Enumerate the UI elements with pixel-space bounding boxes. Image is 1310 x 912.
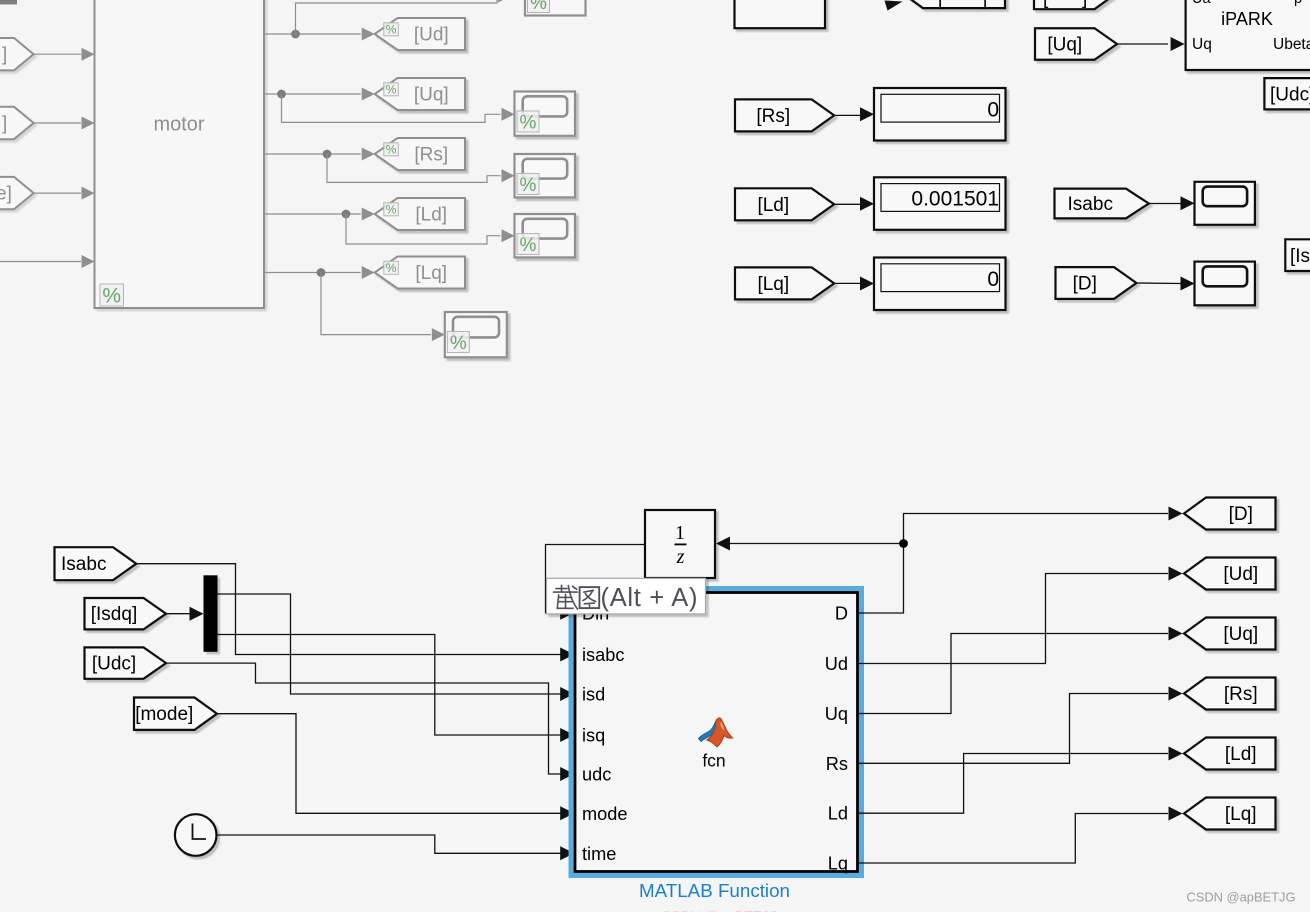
wire [Udc] to udc port (166, 663, 561, 774)
comment-through % badge on motor block (100, 284, 124, 308)
svg-text:Ud: Ud (825, 654, 848, 674)
svg-text:motor: motor (153, 114, 204, 136)
arrowhead into isd port (560, 687, 574, 701)
cut goto tag [Udc] at right edge (1264, 78, 1310, 109)
from tag [D] top section (1056, 267, 1137, 299)
svg-text:Lq: Lq (828, 854, 848, 874)
svg-text:CSDN @apBETJG: CSDN @apBETJG (661, 908, 779, 912)
svg-text:]: ] (2, 113, 7, 134)
svg-text:[: [ (938, 0, 944, 10)
junction dot on D wire feeding 1/z (899, 539, 908, 548)
svg-text:CSDN @apBETJG: CSDN @apBETJG (1186, 890, 1295, 905)
from tag [mode] bottom (134, 698, 217, 730)
svg-text:[Udc]: [Udc] (1270, 85, 1310, 106)
svg-text:[Uq]: [Uq] (414, 85, 449, 106)
svg-text:0: 0 (987, 268, 999, 291)
wire Lq port to goto tag [Lq] (858, 814, 1169, 864)
svg-text:[Uq]: [Uq] (1047, 35, 1082, 56)
screenshot tooltip box (547, 578, 706, 614)
svg-text:[Ld]: [Ld] (415, 205, 447, 226)
goto tag [Ud] right column (1184, 558, 1276, 590)
svg-text:]: ] (2, 45, 7, 66)
arrowhead into goto tag [Lq] (1169, 807, 1183, 821)
svg-text:[Udc]: [Udc] (92, 654, 136, 675)
svg-text:isabc: isabc (582, 645, 624, 665)
comment % badge on tag [Rs] (384, 143, 399, 157)
svg-text:Uq: Uq (1192, 36, 1212, 53)
svg-text:[Uq]: [Uq] (1223, 624, 1258, 645)
wire Ld port to goto tag [Ld] (858, 754, 1169, 814)
svg-text:%: % (520, 112, 537, 133)
svg-text:e]: e] (0, 183, 12, 204)
svg-text:]: ] (982, 0, 987, 10)
faded branch wire from [Ld] junction to scope 3 (346, 214, 501, 244)
arrowhead into faded scope 2 (502, 169, 515, 182)
from tag [Ld] top section (735, 188, 834, 220)
wire [D] to scope (1136, 282, 1180, 285)
junction dot on wire [Uq] (277, 90, 286, 99)
arrowhead into display Ld (860, 197, 874, 211)
faded input tag into motor port 3 (cut at left edge) (0, 177, 34, 209)
svg-text:[mode]: [mode] (135, 704, 193, 725)
svg-text:(Alt + A): (Alt + A) (601, 584, 699, 612)
junction dot on wire [Ld] (342, 210, 351, 219)
display block Rs value 0 (874, 88, 1006, 141)
svg-text:mode: mode (582, 804, 628, 824)
wire Ud port to goto tag [Ud] (858, 574, 1169, 664)
arrowhead motor input 2 (82, 117, 95, 130)
wire Uq port to goto tag [Uq] (858, 634, 1169, 714)
arrowhead into faded scope 4 (432, 328, 445, 341)
faded scope 4 (445, 312, 507, 357)
wire demux out2 to isq port (218, 635, 561, 736)
wire from junction into 1/z right input (730, 543, 904, 545)
display block Lq value 0 (874, 258, 1006, 311)
arrowhead motor input 1 (82, 48, 95, 61)
arrowhead into scope Isabc (1181, 196, 1195, 210)
svg-text:%: % (386, 261, 397, 275)
svg-text:Ld: Ld (828, 804, 848, 824)
arrowhead into goto tag [Rs] (362, 148, 375, 161)
% badge on cut scope (528, 0, 550, 14)
svg-text:Ua: Ua (1192, 0, 1211, 7)
svg-text:isd: isd (582, 685, 605, 705)
tooltip CJK glyph jie (drawn) (554, 585, 578, 609)
tooltip CJK glyph tu (drawn) (580, 587, 600, 608)
svg-text:MATLAB Function: MATLAB Function (639, 880, 790, 901)
svg-text:[Lq]: [Lq] (1225, 804, 1257, 825)
faded goto tag [Ld] (375, 198, 465, 230)
from tag [Isdq] bottom (85, 598, 167, 629)
wire motor output 4 to tag [Ld] (264, 213, 361, 215)
wire [Lq] to display (834, 282, 860, 284)
arrowhead into isq port (560, 728, 574, 742)
svg-text:[D]: [D] (1073, 274, 1097, 295)
svg-text:[Ld]: [Ld] (1225, 744, 1257, 765)
wire tag2 to motor (34, 122, 81, 124)
wire D port to goto tag [D] (858, 514, 1169, 614)
arrowhead into scope D (1181, 277, 1195, 291)
svg-text:[Lq]: [Lq] (757, 274, 789, 295)
faded goto tag [Lq] (375, 257, 465, 289)
clock block (175, 814, 217, 856)
demux block (black bar) (204, 575, 218, 652)
MATLAB Function block body (575, 593, 858, 872)
wire motor output 2 to tag [Uq] (264, 93, 361, 95)
wire tag1 to motor (34, 53, 81, 55)
arrowhead into goto tag [Ud] (362, 28, 375, 41)
arrowhead into faded scope 1 (502, 108, 515, 121)
svg-text:]: ] (1082, 0, 1087, 9)
partial block cut at top edge (735, 0, 826, 28)
faded scope 2 (515, 154, 576, 197)
goto tag [Rs] right column (1184, 678, 1276, 710)
svg-text:[Rs]: [Rs] (414, 145, 448, 166)
svg-text:D: D (835, 604, 848, 624)
svg-text:[Rs]: [Rs] (756, 106, 790, 127)
faded goto tag [Rs] (375, 138, 465, 170)
arrowhead into goto tag [Ld] (1169, 747, 1183, 761)
wire [Uq] to iPARK (1117, 43, 1168, 45)
goto tag [Ld] right column (1184, 738, 1276, 770)
goto tag [Uq] right column (1184, 618, 1276, 650)
arrowhead into display Lq (860, 277, 874, 291)
cut from tag [Isdq] at right edge (1285, 239, 1310, 271)
wire Isabc to mux and down to isabc port (136, 564, 560, 655)
svg-text:fcn: fcn (702, 751, 725, 771)
wire motor output 5 to tag [Lq] (264, 272, 361, 274)
comment % badge on tag [Lq] (384, 261, 399, 275)
svg-text:%: % (450, 333, 467, 354)
arrowhead into Din port (560, 606, 574, 620)
arrowhead into top cut scope (498, 0, 511, 3)
svg-text:%: % (386, 83, 397, 97)
arrowhead into mode port (560, 806, 574, 820)
svg-text:1: 1 (675, 522, 685, 544)
arrowhead into udc port (560, 767, 574, 781)
unit delay block 1/z (645, 510, 715, 578)
svg-text:udc: udc (582, 765, 611, 785)
svg-text:[Lq]: [Lq] (415, 263, 447, 284)
comment % badge on tag [Uq] (384, 83, 399, 97)
arrowhead into goto tag [Uq] (1169, 627, 1183, 641)
wire [Rs] to display (834, 114, 860, 116)
junction dot on wire [Ud] (291, 30, 300, 39)
subsystem block iPARK (cut at top/right) (1186, 0, 1310, 70)
junction dot on wire [Rs] (323, 150, 332, 159)
arrowhead into goto tag [Ud] (1169, 567, 1183, 581)
svg-text:time: time (582, 844, 616, 864)
MATLAB logo icon (fcn) (699, 718, 733, 747)
svg-text:0.001501: 0.001501 (911, 188, 999, 211)
arrowhead into cut goto tag (rotated, partially visible) (885, 1, 903, 11)
arrowhead into time port (560, 846, 574, 860)
arrowhead into goto tag [Uq] (362, 88, 375, 101)
wire [Ld] to display (834, 203, 860, 205)
faded scope 3 (515, 214, 576, 257)
from tag Isabc top section (1055, 189, 1149, 219)
arrowhead into goto tag [Ld] (362, 208, 375, 221)
comment % badge on tag [Ud] (384, 23, 399, 37)
svg-text:0: 0 (987, 98, 999, 121)
svg-text:%: % (386, 203, 397, 217)
junction dot on wire [Lq] (317, 268, 326, 277)
arrowhead into goto tag [Rs] (1169, 687, 1183, 701)
svg-text:p: p (1294, 0, 1302, 7)
goto tag [Lq] right column (1184, 798, 1276, 830)
faded scope 1 (515, 92, 576, 136)
svg-text:[Isdq]: [Isdq] (1290, 246, 1310, 267)
svg-text:[Ud]: [Ud] (414, 25, 449, 46)
faded branch wire from [Lq] junction down to scope 4 (321, 273, 431, 335)
cut-off faded tag fragment top-left corner (0, 0, 17, 4)
wire [Isdq] to demux (166, 613, 190, 615)
wire tag3 to motor (34, 192, 81, 194)
arrowhead into goto tag [D] (1169, 507, 1183, 521)
display block Ld value 0.001501 (874, 177, 1006, 230)
svg-text:%: % (530, 0, 547, 14)
svg-text:%: % (520, 235, 537, 256)
arrowhead into MATLAB fn isabc port (560, 648, 574, 662)
from tag [Udc] bottom (85, 647, 167, 678)
faded goto tag [Uq] (375, 78, 465, 110)
svg-text:[Ud]: [Ud] (1223, 564, 1258, 585)
faded scope (cut at top edge) (525, 0, 586, 16)
wire Isabc to scope (1149, 203, 1180, 205)
wire demux out1 to isd port (218, 594, 561, 694)
faded branch wire from [Uq] junction to scope 1 (282, 94, 501, 122)
faded subsystem block 'motor' (95, 0, 265, 308)
svg-text:Isabc: Isabc (1068, 194, 1113, 215)
arrowhead into faded scope 3 (502, 229, 515, 242)
svg-text:Isabc: Isabc (61, 554, 106, 575)
wire from off-screen into motor port 4 (0, 261, 81, 263)
wire clock to time port (217, 835, 561, 853)
wire Rs port to goto tag [Rs] (858, 694, 1169, 764)
svg-text:isq: isq (582, 726, 605, 746)
svg-text:z: z (676, 546, 685, 568)
faded goto tag [Ud] (375, 18, 465, 50)
svg-text:[Rs]: [Rs] (1224, 684, 1258, 705)
from tag [Uq] feeding iPARK (1035, 28, 1117, 60)
cut from tag near top edge (1034, 0, 1117, 9)
wire [mode] to mode port (217, 714, 561, 814)
svg-text:%: % (386, 23, 397, 37)
svg-text:[: [ (1043, 0, 1049, 9)
from tag [Lq] top section (735, 267, 834, 299)
arrowhead motor input 4 (82, 255, 95, 268)
svg-text:Rs: Rs (826, 754, 848, 774)
arrowhead into goto tag [Lq] (362, 266, 375, 279)
faded branch wire from [Ud] junction up to top scope (296, 0, 498, 34)
svg-text:%: % (386, 143, 397, 157)
from tag Isabc bottom (55, 547, 137, 580)
arrowhead into iPARK Uq port (1171, 37, 1185, 51)
arrowhead into display Rs (860, 107, 874, 121)
svg-text:[Ld]: [Ld] (757, 195, 789, 216)
svg-text:[D]: [D] (1229, 504, 1253, 525)
from tag [Rs] top section (735, 99, 834, 131)
svg-text:iPARK: iPARK (1221, 9, 1273, 29)
cut goto tag near top edge (901, 0, 1005, 8)
arrowhead into demux (190, 607, 204, 621)
faded input tag into motor port 1 (cut at left edge) (0, 38, 34, 70)
arrowhead into 1/z (pointing left) (716, 537, 730, 551)
faded input tag into motor port 2 (cut at left edge) (0, 107, 34, 139)
faded branch wire from [Rs] junction to scope 2 (327, 154, 501, 182)
svg-text:%: % (102, 285, 121, 308)
comment % badge on tag [Ld] (384, 203, 399, 217)
wire motor output 3 to tag [Rs] (264, 153, 361, 155)
scope block D (1195, 262, 1255, 306)
svg-text:%: % (520, 175, 537, 196)
svg-text:Ubeta: Ubeta (1273, 36, 1310, 53)
MATLAB Function block selection highlight (blue) (571, 589, 862, 876)
wire 1/z output down to Din port (546, 545, 646, 613)
scope block Isabc (1195, 182, 1255, 225)
svg-text:[Isdq]: [Isdq] (91, 604, 137, 625)
goto tag [D] right column (1184, 498, 1276, 530)
svg-text:Uq: Uq (825, 704, 848, 724)
wire motor output 1 to tag [Ud] (264, 33, 361, 35)
arrowhead motor input 3 (82, 187, 95, 200)
